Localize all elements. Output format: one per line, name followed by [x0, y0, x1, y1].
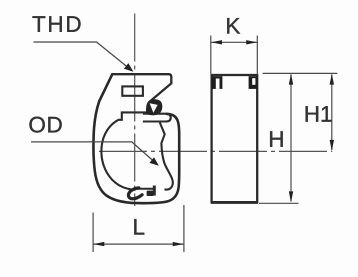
K dimension line	[211, 41, 257, 43]
svg-text:H: H	[268, 127, 284, 152]
K extension line left	[210, 36, 212, 74]
right rail white notch	[252, 78, 255, 85]
inner right profile notch	[160, 123, 173, 190]
H1 arrow up	[330, 74, 334, 85]
latch slot ledge	[143, 114, 171, 122]
THD leader line	[34, 42, 131, 70]
bottom latch curl hook	[128, 188, 142, 199]
H dimension line	[290, 75, 292, 202]
L extension line right	[183, 205, 185, 252]
top extension line for H/H1	[263, 72, 338, 74]
left rail white notch	[216, 79, 220, 89]
bottom toe	[153, 186, 156, 196]
bottom extension line for H	[259, 202, 299, 204]
L extension line left	[92, 213, 94, 253]
H arrow up	[289, 74, 293, 85]
inner hole top step and left arc	[101, 112, 146, 189]
bottom latch tab	[147, 191, 154, 196]
L dimension line	[94, 243, 184, 245]
bottom slot line	[136, 188, 154, 190]
H arrow down	[289, 191, 293, 202]
K extension line right	[256, 36, 258, 74]
left rail mark	[212, 76, 223, 89]
svg-text:K: K	[225, 14, 240, 39]
H1 arrow down	[330, 140, 334, 151]
svg-text:OD: OD	[28, 112, 63, 137]
THD screw hole	[122, 86, 143, 95]
H1 dimension line	[331, 75, 333, 151]
svg-text:L: L	[132, 214, 145, 239]
K arrow left	[211, 40, 222, 44]
vertical centerline of clamp	[134, 14, 136, 207]
front view bottom heavy edge	[211, 201, 258, 204]
latch pawl filled hook	[146, 99, 162, 115]
pawl white arrow notch	[150, 103, 158, 113]
horizontal centerline OD axis	[99, 150, 332, 152]
front view body rectangle	[212, 75, 258, 202]
OD leader line	[31, 142, 156, 164]
L arrow right	[173, 242, 184, 246]
THD leader arrowhead	[124, 63, 133, 72]
right rail mark	[249, 76, 258, 89]
L arrow left	[93, 242, 104, 246]
clamp outer outline left/bottom/right	[93, 74, 179, 203]
OD leader arrowhead	[150, 157, 159, 166]
svg-text:H1: H1	[304, 102, 333, 127]
svg-text:THD: THD	[32, 12, 83, 37]
clamp top box outline	[112, 74, 171, 101]
K arrow right	[246, 40, 257, 44]
